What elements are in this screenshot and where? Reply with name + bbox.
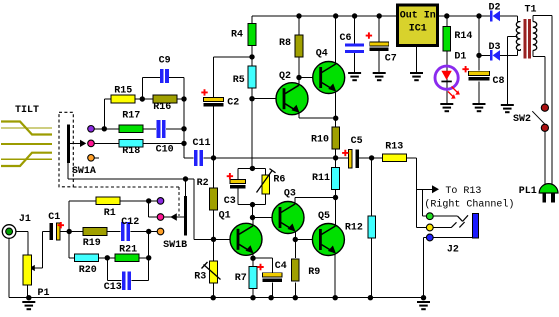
svg-text:C5: C5	[351, 136, 363, 147]
svg-text:Q4: Q4	[316, 48, 328, 59]
svg-text:R16: R16	[153, 102, 171, 113]
svg-text:R21: R21	[119, 245, 137, 256]
svg-text:R19: R19	[83, 238, 101, 249]
svg-text:R9: R9	[308, 267, 320, 278]
svg-text:R18: R18	[122, 146, 140, 157]
svg-text:C10: C10	[156, 145, 174, 156]
svg-text:T1: T1	[525, 4, 537, 15]
svg-text:C6: C6	[340, 33, 352, 44]
svg-text:R6: R6	[273, 174, 285, 185]
svg-text:J2: J2	[447, 244, 459, 255]
svg-text:SW1A: SW1A	[72, 166, 96, 177]
svg-text:R5: R5	[233, 75, 245, 86]
svg-text:R8: R8	[279, 38, 291, 49]
svg-text:R14: R14	[454, 31, 472, 42]
svg-text:R4: R4	[231, 30, 243, 41]
svg-text:SW2: SW2	[513, 114, 531, 125]
svg-text:P1: P1	[38, 288, 50, 299]
svg-text:R11: R11	[312, 173, 330, 184]
svg-text:R20: R20	[79, 265, 97, 276]
svg-text:C4: C4	[275, 261, 287, 272]
svg-text:C11: C11	[193, 138, 211, 149]
svg-text:Out In: Out In	[400, 11, 436, 22]
svg-text:C3: C3	[224, 196, 236, 207]
svg-text:D3: D3	[489, 42, 501, 53]
svg-text:R2: R2	[197, 178, 209, 189]
svg-text:IC1: IC1	[409, 24, 427, 35]
svg-text:Q3: Q3	[284, 188, 296, 199]
svg-text:J1: J1	[19, 214, 31, 225]
svg-text:R15: R15	[114, 85, 132, 96]
svg-text:R17: R17	[122, 111, 140, 122]
svg-text:R1: R1	[104, 208, 116, 219]
svg-text:Q5: Q5	[318, 211, 330, 222]
svg-text:PL1: PL1	[519, 186, 537, 197]
svg-text:(Right Channel): (Right Channel)	[424, 198, 514, 210]
svg-text:Q2: Q2	[279, 71, 291, 82]
svg-text:TILT: TILT	[15, 105, 39, 116]
svg-text:R3: R3	[194, 272, 206, 283]
svg-text:C13: C13	[104, 282, 122, 293]
svg-text:C9: C9	[159, 55, 171, 66]
svg-text:R13: R13	[385, 142, 403, 153]
svg-text:D1: D1	[454, 52, 466, 63]
svg-text:D2: D2	[489, 3, 501, 14]
svg-text:Q1: Q1	[219, 211, 231, 222]
svg-text:C12: C12	[121, 217, 139, 228]
svg-text:R10: R10	[311, 134, 329, 145]
svg-text:R12: R12	[345, 223, 363, 234]
svg-text:C1: C1	[48, 212, 60, 223]
svg-text:C8: C8	[493, 76, 505, 87]
svg-text:SW1B: SW1B	[163, 240, 187, 251]
svg-text:C7: C7	[385, 54, 397, 65]
svg-text:C2: C2	[227, 98, 239, 109]
svg-text:R7: R7	[235, 273, 247, 284]
svg-text:To R13: To R13	[445, 186, 481, 197]
